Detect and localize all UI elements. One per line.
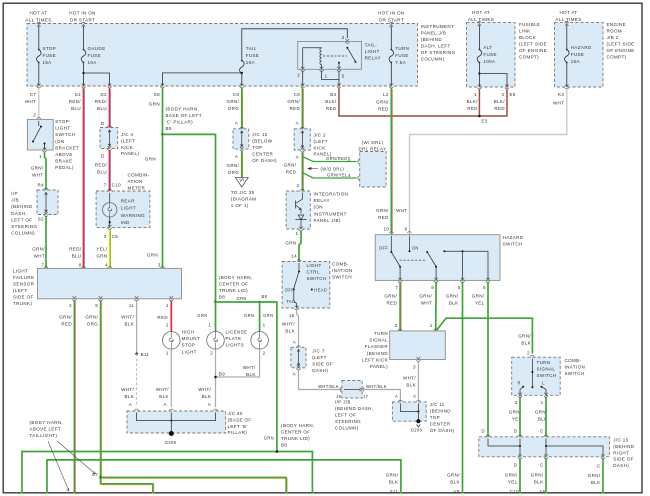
svg-text:REAR: REAR xyxy=(121,199,135,204)
DRL relay box xyxy=(360,152,386,188)
svg-text:9: 9 xyxy=(431,285,434,290)
svg-text:RED: RED xyxy=(378,215,389,220)
svg-text:DASH, LEFT: DASH, LEFT xyxy=(421,44,451,49)
svg-text:PEDAL): PEDAL) xyxy=(55,165,74,170)
engine room J/B 2 box xyxy=(555,23,604,87)
svg-text:WHT: WHT xyxy=(396,208,407,213)
wire WHT/BLK high mount to J/C 40 xyxy=(170,349,172,407)
svg-text:B8: B8 xyxy=(262,294,268,299)
svg-text:SIDE OF: SIDE OF xyxy=(312,362,333,367)
svg-text:(BEHIND: (BEHIND xyxy=(613,444,635,449)
svg-text:D: D xyxy=(514,463,518,468)
turn signal switch pin 1 connector xyxy=(544,393,548,398)
svg-text:HAZARD: HAZARD xyxy=(503,235,524,240)
svg-text:ORG: ORG xyxy=(87,322,99,327)
relay pin 3 connector xyxy=(345,39,349,44)
svg-text:C: C xyxy=(597,464,601,469)
svg-text:J8: J8 xyxy=(336,394,341,399)
svg-text:BLK: BLK xyxy=(159,394,169,399)
wire RED sensor pin 1 to high mount stop light xyxy=(170,301,172,332)
svg-text:BLK/: BLK/ xyxy=(325,99,337,104)
svg-text:1: 1 xyxy=(474,92,477,97)
svg-text:2: 2 xyxy=(69,303,72,308)
svg-text:15A: 15A xyxy=(43,60,52,65)
svg-text:DASH): DASH) xyxy=(312,368,328,373)
svg-text:B8: B8 xyxy=(219,295,225,300)
svg-text:A: A xyxy=(293,372,296,377)
svg-text:COLUMN): COLUMN) xyxy=(11,231,35,236)
svg-text:3: 3 xyxy=(413,365,416,370)
wire WHT/BLK license left to J/C 40 xyxy=(215,349,217,407)
svg-text:GRN/: GRN/ xyxy=(472,294,485,299)
svg-text:COLUMN): COLUMN) xyxy=(421,57,445,62)
relay pin 2 connector xyxy=(301,67,305,72)
svg-text:A: A xyxy=(296,155,299,160)
svg-text:11: 11 xyxy=(129,303,135,308)
wire alt fuse branch to pin 2 xyxy=(479,74,507,88)
svg-text:OF STEERING: OF STEERING xyxy=(421,50,456,55)
svg-text:CENTER: CENTER xyxy=(252,152,273,157)
svg-text:R: R xyxy=(518,381,521,386)
svg-text:OF DASH): OF DASH) xyxy=(430,428,455,433)
svg-text:BLK/: BLK/ xyxy=(494,99,506,104)
svg-text:WHT/BLK: WHT/BLK xyxy=(366,384,387,389)
svg-text:WHT: WHT xyxy=(34,254,45,259)
hazard fuse 15A xyxy=(565,21,569,26)
turn fuse 7.5A xyxy=(389,22,393,27)
node B5 xyxy=(161,133,164,136)
exit S1 connector xyxy=(81,83,85,88)
svg-text:RED/: RED/ xyxy=(95,99,108,104)
svg-text:GRN/: GRN/ xyxy=(85,315,98,320)
svg-text:R4: R4 xyxy=(37,183,44,188)
svg-text:BLU: BLU xyxy=(97,106,107,111)
svg-text:GRN/: GRN/ xyxy=(446,294,459,299)
svg-text:GRN/: GRN/ xyxy=(588,473,601,478)
svg-text:E9: E9 xyxy=(510,92,516,97)
svg-text:COMPT): COMPT) xyxy=(607,55,627,60)
turn signal switch box xyxy=(512,357,561,395)
svg-text:BLK: BLK xyxy=(534,479,544,484)
wire GRN/BLK J/C15 right to bottom xyxy=(602,459,604,494)
exit D2 connector xyxy=(107,83,111,88)
wire GRN/BLK turn signal switch pin 2 to flasher pin 1 xyxy=(437,318,532,353)
svg-text:FUSIBLE: FUSIBLE xyxy=(519,22,540,27)
exit C9 connector xyxy=(240,83,244,88)
svg-text:2: 2 xyxy=(395,323,398,328)
svg-text:FUSE: FUSE xyxy=(571,52,585,57)
node B11 xyxy=(135,353,138,356)
svg-text:A: A xyxy=(296,121,299,126)
exit L2 connector xyxy=(389,83,393,88)
svg-text:ALL TIMES: ALL TIMES xyxy=(25,17,51,22)
W/O DRL pointer arrow xyxy=(308,167,318,169)
wire GRN B5 to sensor pin 3 xyxy=(162,134,164,268)
wire GRN/YEL branch to DRL relay pin 4 xyxy=(302,173,356,179)
svg-text:E3: E3 xyxy=(481,119,487,124)
svg-text:CENTER OF: CENTER OF xyxy=(281,430,310,435)
svg-text:ALT: ALT xyxy=(483,45,492,50)
svg-text:(BASE OF: (BASE OF xyxy=(228,417,252,422)
svg-text:16: 16 xyxy=(289,313,295,318)
svg-text:INATION: INATION xyxy=(565,365,586,370)
svg-text:GRN: GRN xyxy=(237,296,247,301)
wire D2 RED/BLU to J/C 4 xyxy=(109,88,111,128)
svg-text:ALL TIMES: ALL TIMES xyxy=(468,17,494,22)
svg-text:COMB-: COMB- xyxy=(332,261,349,266)
svg-text:MOUNT: MOUNT xyxy=(182,336,200,341)
svg-text:KICK: KICK xyxy=(121,145,133,150)
svg-text:GRN/: GRN/ xyxy=(287,99,300,104)
svg-text:GAUGE: GAUGE xyxy=(88,46,106,51)
svg-text:(W/ DRL): (W/ DRL) xyxy=(362,140,384,145)
svg-text:SWITCH: SWITCH xyxy=(332,274,352,279)
svg-text:A: A xyxy=(235,154,238,159)
svg-text:GRN: GRN xyxy=(145,157,156,162)
svg-text:GRN/: GRN/ xyxy=(227,99,240,104)
svg-text:A5: A5 xyxy=(539,489,545,494)
svg-text:1: 1 xyxy=(263,323,266,328)
svg-text:1 OF 1): 1 OF 1) xyxy=(231,203,249,208)
svg-text:GRN/: GRN/ xyxy=(32,247,45,252)
svg-text:TURN: TURN xyxy=(395,46,409,51)
svg-text:GRN/: GRN/ xyxy=(376,100,389,105)
wire GRN/YEL ts pin 3 to J/C 15 xyxy=(519,397,521,437)
I/P J/B junction J8-J7 xyxy=(340,387,345,391)
svg-text:RED: RED xyxy=(378,107,389,112)
svg-text:ENGINE: ENGINE xyxy=(607,22,627,27)
junction tail fuse to S8 branch xyxy=(241,72,243,74)
svg-text:ON: ON xyxy=(412,246,419,251)
svg-text:(LEFT SIDE: (LEFT SIDE xyxy=(519,42,547,47)
svg-text:PANEL): PANEL) xyxy=(121,151,139,156)
light ctrl switch pin 16 connector xyxy=(295,305,299,310)
wire GRN/RED branch to DRL relay pin 5 xyxy=(302,157,356,162)
svg-text:LEFT ‘B’: LEFT ‘B’ xyxy=(228,424,248,429)
svg-text:7.5A: 7.5A xyxy=(395,60,406,65)
wire WHT/BLK license right to node B9 xyxy=(216,349,260,377)
hazard switch link dashed xyxy=(400,259,426,261)
svg-text:8: 8 xyxy=(405,227,408,232)
svg-text:BLU: BLU xyxy=(97,170,107,175)
svg-text:WHT/: WHT/ xyxy=(282,322,295,327)
wire tail fuse to S8 xyxy=(163,73,242,86)
svg-text:3: 3 xyxy=(158,263,161,268)
svg-text:BLOCK: BLOCK xyxy=(519,35,536,40)
wire dashed B11 to J/C 40 xyxy=(136,354,138,407)
svg-text:GRN: GRN xyxy=(244,313,254,318)
relay pin 1 connector xyxy=(320,67,324,72)
svg-text:DASH): DASH) xyxy=(613,463,629,468)
svg-text:BLK: BLK xyxy=(246,372,256,377)
svg-text:STOP: STOP xyxy=(182,343,196,348)
svg-text:ROOM: ROOM xyxy=(607,29,623,34)
wire GRN/BLK ts pin 1 to J/C 15 xyxy=(545,397,547,437)
relay coil to pin 1 xyxy=(321,65,323,70)
svg-text:WHT/: WHT/ xyxy=(121,387,134,392)
svg-text:J/C 2: J/C 2 xyxy=(314,133,327,138)
svg-text:GRN/RED: GRN/RED xyxy=(326,156,348,161)
svg-text:LIGHT: LIGHT xyxy=(365,49,380,54)
svg-text:RED: RED xyxy=(157,315,168,320)
connector triangle TO J/C 35 xyxy=(235,178,248,188)
svg-text:GRN/: GRN/ xyxy=(284,163,297,168)
light failure sensor pin 2 connector xyxy=(72,296,76,301)
svg-text:GRN: GRN xyxy=(149,102,160,107)
hazard switch box xyxy=(375,235,500,281)
svg-text:(ON: (ON xyxy=(55,139,64,144)
wire GRN/YEL hazard pin 6 to J/C 15 xyxy=(487,282,489,437)
hazard switch pin 9 connector xyxy=(434,278,438,283)
turn signal flasher box xyxy=(398,329,402,334)
wire GRN integration relay to light ctrl switch xyxy=(299,231,301,262)
svg-text:1: 1 xyxy=(541,400,544,405)
svg-text:GRN/: GRN/ xyxy=(376,208,389,213)
svg-text:D2: D2 xyxy=(100,92,107,97)
wire relay pin 5 to B4 exit xyxy=(338,71,340,86)
svg-text:2: 2 xyxy=(263,351,266,356)
svg-text:LINK: LINK xyxy=(519,29,531,34)
wire S8 GRN to node B5 xyxy=(162,88,164,134)
wire C7 WHT to stop light switch xyxy=(38,88,40,119)
svg-text:FUSE: FUSE xyxy=(395,53,409,58)
svg-text:HIGH: HIGH xyxy=(182,330,195,335)
instrument panel J/B (top fuse/relay block) xyxy=(27,24,418,87)
svg-text:BLK: BLK xyxy=(449,301,459,306)
svg-text:COMB-: COMB- xyxy=(565,358,582,363)
wire L2 GRN/RED to hazard switch pin 10 xyxy=(390,88,392,234)
svg-text:HOT AT: HOT AT xyxy=(472,10,490,15)
node license junction left xyxy=(214,301,217,304)
svg-text:2: 2 xyxy=(210,351,213,356)
svg-text:15A: 15A xyxy=(571,59,580,64)
svg-text:(W/O DRL): (W/O DRL) xyxy=(321,166,345,171)
svg-text:FAILURE: FAILURE xyxy=(13,275,34,280)
tail light relay U1 xyxy=(298,42,362,70)
wire YEL/GRN meter to sensor pin 4 xyxy=(109,230,111,269)
ground G308 xyxy=(169,431,174,436)
svg-text:A: A xyxy=(164,402,167,407)
svg-text:C7: C7 xyxy=(30,92,37,97)
stop fuse 15A xyxy=(37,22,41,27)
svg-text:LEFT OF: LEFT OF xyxy=(335,413,356,418)
svg-text:D: D xyxy=(101,154,105,159)
svg-text:RED: RED xyxy=(290,106,301,111)
svg-text:C8: C8 xyxy=(112,234,119,239)
svg-text:C: C xyxy=(540,463,544,468)
svg-text:TAIL: TAIL xyxy=(286,299,296,304)
svg-text:GRN/: GRN/ xyxy=(505,472,518,477)
svg-text:8: 8 xyxy=(79,263,82,268)
svg-text:BASE OF LEFT: BASE OF LEFT xyxy=(166,113,202,118)
svg-text:ABOVE: ABOVE xyxy=(55,152,72,157)
svg-text:COMBIN-: COMBIN- xyxy=(128,172,150,177)
wire GRN junction to license right xyxy=(259,302,261,332)
svg-text:INTEGRATION: INTEGRATION xyxy=(314,192,349,197)
svg-text:WHT/BLK: WHT/BLK xyxy=(318,384,339,389)
svg-text:J/C 7: J/C 7 xyxy=(312,349,325,354)
svg-text:14: 14 xyxy=(291,254,297,259)
svg-text:2: 2 xyxy=(33,113,36,118)
svg-text:WHT: WHT xyxy=(25,99,36,104)
svg-text:WHT/: WHT/ xyxy=(156,387,169,392)
svg-text:I/P: I/P xyxy=(11,191,18,196)
svg-text:7: 7 xyxy=(41,263,44,268)
svg-text:2: 2 xyxy=(527,351,530,356)
svg-text:J/C 15: J/C 15 xyxy=(613,438,628,443)
svg-text:SIGNAL: SIGNAL xyxy=(537,366,556,371)
svg-text:RIGHT: RIGHT xyxy=(613,450,629,455)
svg-text:GRN: GRN xyxy=(197,313,207,318)
svg-text:TRUNK): TRUNK) xyxy=(13,301,32,306)
svg-text:1: 1 xyxy=(325,73,328,78)
svg-text:COMPT): COMPT) xyxy=(519,55,539,60)
svg-text:2: 2 xyxy=(502,92,505,97)
wire GRN B5 branch to license lights junction xyxy=(163,134,216,302)
svg-text:YEL: YEL xyxy=(508,479,518,484)
svg-text:(BELOW: (BELOW xyxy=(252,139,272,144)
svg-text:A: A xyxy=(293,340,296,345)
svg-text:HOT AT: HOT AT xyxy=(29,11,47,16)
light failure sensor pin 1 connector xyxy=(169,296,173,301)
wire GRN/YEL J/C15 to C10 xyxy=(519,459,521,494)
light failure sensor pin 9 connector xyxy=(99,296,103,301)
J/C 40 box xyxy=(127,411,226,433)
hazard switch pin 7 connector xyxy=(398,278,402,283)
svg-text:RED: RED xyxy=(467,106,478,111)
exit C8 connector xyxy=(301,83,305,88)
wire GRN/ORG J/C12 to J/C35 triangle xyxy=(241,151,243,178)
wire GRN/WHT to sensor pin 7 xyxy=(45,217,47,269)
svg-text:GRN: GRN xyxy=(96,254,107,259)
svg-text:WHT: WHT xyxy=(32,173,43,178)
wire ALT pin 1 to node E3 xyxy=(478,89,480,116)
svg-text:I/P J/B: I/P J/B xyxy=(335,400,351,405)
wire GRN/BLK J/C15 to A5 xyxy=(545,459,547,494)
svg-text:WHT: WHT xyxy=(553,101,564,106)
svg-text:1: 1 xyxy=(208,323,211,328)
integration relay pin 1 connector xyxy=(299,226,303,231)
light failure sensor pin 11 connector xyxy=(135,296,139,301)
svg-text:RED: RED xyxy=(286,170,297,175)
wire GRN/ORG sensor pin 9 to node B7 xyxy=(100,301,102,478)
svg-text:LIGHT: LIGHT xyxy=(13,269,28,274)
svg-text:CTRL: CTRL xyxy=(307,269,320,274)
svg-text:ORG: ORG xyxy=(228,170,240,175)
svg-text:D: D xyxy=(101,121,105,126)
svg-text:LIGHT: LIGHT xyxy=(55,126,70,131)
exit ALT pin 1 connector xyxy=(477,84,481,89)
svg-text:S8: S8 xyxy=(154,92,160,97)
svg-text:RED/: RED/ xyxy=(69,247,82,252)
svg-text:GRN/: GRN/ xyxy=(384,294,397,299)
svg-text:(BEHIND DASH,: (BEHIND DASH, xyxy=(335,406,373,411)
junction gauge fuse branch xyxy=(82,72,84,74)
svg-text:WARNING: WARNING xyxy=(121,213,145,218)
svg-text:TAIL-: TAIL- xyxy=(365,43,378,48)
wire C8 GRN/RED to J/C 2 xyxy=(301,88,303,129)
wire K3 WHT to hazard switch pin 8 xyxy=(410,89,567,234)
svg-text:S2: S2 xyxy=(38,217,44,222)
svg-text:‘C’ PILLAR): ‘C’ PILLAR) xyxy=(166,120,194,125)
svg-text:INATION: INATION xyxy=(332,268,353,273)
svg-text:TURN: TURN xyxy=(374,331,388,336)
license plate light left lamp xyxy=(207,332,225,350)
svg-text:GRN/YEL: GRN/YEL xyxy=(327,173,348,178)
wire RED/BLU J/C4 to meter pin 7 xyxy=(109,150,111,191)
pointer arrows to B7 xyxy=(57,441,96,474)
svg-text:V8: V8 xyxy=(454,489,460,494)
wire WHT/BLK flasher pin 3 to J/C 11 xyxy=(417,362,419,403)
svg-text:GRN/: GRN/ xyxy=(386,472,399,477)
svg-text:GRN/: GRN/ xyxy=(447,472,460,477)
svg-text:(ON: (ON xyxy=(314,205,323,210)
light ctrl switch contacts xyxy=(298,263,300,271)
ALT fuse 100A xyxy=(477,21,481,26)
svg-text:SWITCH: SWITCH xyxy=(503,242,523,247)
J/C 15 pin D out connector xyxy=(518,454,522,459)
svg-text:OR START: OR START xyxy=(70,17,95,22)
svg-text:1: 1 xyxy=(166,303,169,308)
svg-text:C10: C10 xyxy=(510,489,520,494)
svg-text:YEL/: YEL/ xyxy=(96,247,108,252)
svg-text:100A: 100A xyxy=(483,59,495,64)
svg-text:(LEFT: (LEFT xyxy=(121,138,135,143)
svg-text:LIGHT: LIGHT xyxy=(121,206,136,211)
svg-text:PANEL J/B: PANEL J/B xyxy=(421,31,446,36)
svg-text:GRN/: GRN/ xyxy=(59,315,72,320)
fusible link block box xyxy=(467,23,516,87)
exit B4 connector xyxy=(337,83,341,88)
svg-text:SWITCH: SWITCH xyxy=(565,371,585,376)
wire WHT/BLK sensor pin 11 to node B11 xyxy=(136,301,138,354)
wire WHT/BLK J7 to J/C 11 xyxy=(362,390,400,403)
relay coil xyxy=(320,48,322,65)
wire WHT/BLK J/C7 to J8 xyxy=(299,370,342,390)
svg-text:TOP: TOP xyxy=(252,145,262,150)
svg-text:SWITCH: SWITCH xyxy=(307,276,327,281)
svg-text:RELAY: RELAY xyxy=(314,198,330,203)
svg-text:SIDE OF: SIDE OF xyxy=(13,295,34,300)
svg-text:BLK: BLK xyxy=(125,322,135,327)
svg-text:2: 2 xyxy=(297,183,300,188)
svg-text:10A: 10A xyxy=(246,60,255,65)
relay contact to pin 5 xyxy=(338,62,340,64)
wire GRN/WHT stop switch to I/P J/B R4 xyxy=(45,152,47,190)
svg-text:SIDE OF: SIDE OF xyxy=(613,457,634,462)
svg-text:4: 4 xyxy=(348,173,351,178)
svg-text:3: 3 xyxy=(104,234,107,239)
node B8 (lower) xyxy=(276,450,279,453)
svg-text:G308: G308 xyxy=(165,440,177,445)
tail fuse 10A xyxy=(240,48,245,86)
svg-text:1: 1 xyxy=(430,323,433,328)
turn signal switch contacts xyxy=(531,359,533,387)
svg-text:GRN: GRN xyxy=(285,240,296,245)
svg-text:J7: J7 xyxy=(363,394,368,399)
svg-text:FLASHER: FLASHER xyxy=(365,344,389,349)
node B9 xyxy=(214,376,217,379)
wire gauge fuse to D2 xyxy=(84,73,110,86)
svg-text:(BODY HARN,: (BODY HARN, xyxy=(219,275,253,280)
svg-text:K3: K3 xyxy=(558,92,564,97)
svg-text:(BODY HARN,: (BODY HARN, xyxy=(166,107,200,112)
svg-text:BLK: BLK xyxy=(450,479,460,484)
svg-text:4: 4 xyxy=(105,263,108,268)
exit ALT pin 2 connector xyxy=(505,84,509,89)
wire WHT/BLK pin 16 to J/C 7 xyxy=(297,310,299,348)
svg-text:BLK: BLK xyxy=(406,383,416,388)
